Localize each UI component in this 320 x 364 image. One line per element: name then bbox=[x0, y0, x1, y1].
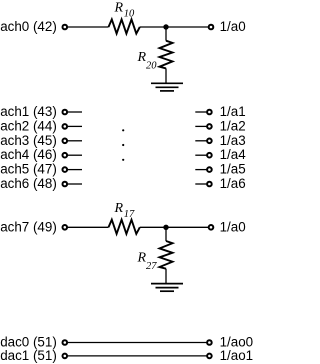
wire bbox=[195, 140, 207, 142]
terminal ach3 bbox=[63, 139, 68, 144]
svg-text:R: R bbox=[114, 1, 124, 16]
terminal 1/a2 bbox=[207, 124, 212, 129]
terminal ach2 bbox=[63, 124, 68, 129]
wire bbox=[195, 169, 207, 171]
wire bbox=[165, 227, 167, 241]
svg-text:1/a2: 1/a2 bbox=[220, 118, 246, 133]
terminal dac0 bbox=[63, 340, 68, 345]
wire bbox=[195, 154, 207, 156]
wire bbox=[165, 68, 167, 83]
wire bbox=[68, 183, 83, 185]
wire bbox=[140, 26, 209, 28]
terminal ach0 bbox=[63, 25, 68, 30]
svg-text:10: 10 bbox=[124, 9, 135, 20]
wire bbox=[165, 27, 167, 41]
svg-text:ach6 (48): ach6 (48) bbox=[0, 176, 57, 191]
terminal 1/ao1 bbox=[207, 354, 212, 359]
svg-text:1/a5: 1/a5 bbox=[220, 162, 246, 177]
resistor R10 bbox=[109, 19, 140, 33]
svg-text:R: R bbox=[137, 50, 147, 65]
svg-text:R: R bbox=[114, 201, 124, 216]
terminal 1/a1 bbox=[207, 110, 212, 115]
wire bbox=[68, 226, 109, 228]
svg-text:1/a3: 1/a3 bbox=[220, 133, 246, 148]
svg-text:1/a0: 1/a0 bbox=[220, 19, 246, 34]
wire bbox=[68, 111, 83, 113]
terminal dac1 bbox=[63, 354, 68, 359]
svg-text:1/a0: 1/a0 bbox=[220, 219, 246, 234]
wire bbox=[68, 140, 83, 142]
wire bbox=[140, 226, 209, 228]
ellipsis dot bbox=[122, 144, 124, 146]
resistor R20 bbox=[160, 41, 173, 69]
wire bbox=[68, 26, 109, 28]
terminal ach6 bbox=[63, 182, 68, 187]
svg-text:ach3 (45): ach3 (45) bbox=[0, 133, 57, 148]
terminal 1/a6 bbox=[207, 182, 212, 187]
svg-text:27: 27 bbox=[146, 261, 157, 272]
wire bbox=[195, 183, 207, 185]
svg-text:ach4 (46): ach4 (46) bbox=[0, 147, 57, 162]
resistor R17 bbox=[109, 220, 140, 234]
terminal ach1 bbox=[63, 110, 68, 115]
label R20 bbox=[137, 50, 158, 72]
label R17 bbox=[114, 201, 136, 220]
svg-text:ach1 (43): ach1 (43) bbox=[0, 104, 57, 119]
ground bbox=[151, 83, 183, 91]
wire bbox=[68, 154, 83, 156]
terminal ach4 bbox=[63, 153, 68, 158]
terminal 1/a3 bbox=[207, 139, 212, 144]
svg-text:1/ao1: 1/ao1 bbox=[220, 348, 253, 363]
svg-text:1/a6: 1/a6 bbox=[220, 176, 246, 191]
svg-text:1/a4: 1/a4 bbox=[220, 147, 247, 162]
terminal ach7 bbox=[63, 225, 68, 230]
resistor R27 bbox=[160, 241, 173, 269]
ellipsis dot bbox=[122, 129, 124, 131]
terminal 1/a4 bbox=[207, 153, 212, 158]
wire bbox=[68, 342, 207, 344]
terminal 1/ao0 bbox=[207, 340, 212, 345]
junction node a7 bbox=[163, 225, 168, 230]
label R10 bbox=[114, 1, 136, 20]
svg-text:ach0 (42): ach0 (42) bbox=[0, 19, 57, 34]
svg-text:ach7 (49): ach7 (49) bbox=[0, 219, 57, 234]
svg-text:20: 20 bbox=[146, 61, 157, 72]
terminal 1/a0 lower bbox=[209, 225, 214, 230]
ground bbox=[151, 284, 183, 292]
ellipsis dot bbox=[122, 159, 124, 161]
svg-text:ach2 (44): ach2 (44) bbox=[0, 118, 57, 133]
svg-text:1/a1: 1/a1 bbox=[220, 104, 246, 119]
terminal ach5 bbox=[63, 167, 68, 172]
svg-text:17: 17 bbox=[124, 209, 135, 220]
wire bbox=[68, 169, 83, 171]
wire bbox=[195, 125, 207, 127]
label R27 bbox=[137, 250, 158, 272]
wire bbox=[165, 269, 167, 284]
terminal 1/a5 bbox=[207, 167, 212, 172]
wire bbox=[68, 125, 83, 127]
terminal 1/a0 bbox=[209, 25, 214, 30]
svg-text:dac1 (51): dac1 (51) bbox=[0, 348, 57, 363]
junction node a0 bbox=[163, 24, 168, 29]
svg-text:ach5 (47): ach5 (47) bbox=[0, 162, 57, 177]
wire bbox=[195, 111, 207, 113]
svg-text:R: R bbox=[137, 250, 147, 265]
wire bbox=[68, 355, 207, 357]
